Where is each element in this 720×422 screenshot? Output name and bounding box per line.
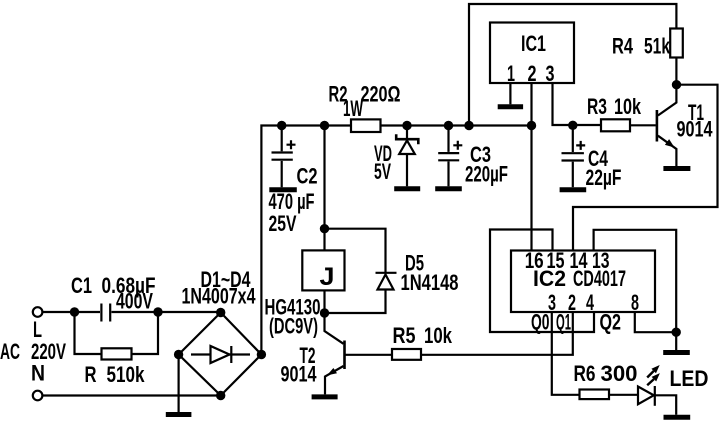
svg-text:N: N <box>31 361 45 386</box>
svg-text:9014: 9014 <box>281 362 318 387</box>
wire IC2 pin8 <box>635 312 676 332</box>
diode D5 loop <box>325 229 397 313</box>
node relay branch junction <box>320 121 329 130</box>
svg-text:1W: 1W <box>343 96 363 121</box>
ground C4 <box>560 187 587 192</box>
svg-text:1N4007x4: 1N4007x4 <box>182 284 257 309</box>
svg-text:R3: R3 <box>587 94 607 119</box>
capacitor C3 <box>438 126 462 187</box>
ground T1 <box>663 166 690 171</box>
svg-text:10k: 10k <box>424 323 453 348</box>
IC1 box <box>490 23 574 84</box>
resistor R2 <box>351 119 381 132</box>
svg-text:5V: 5V <box>374 159 391 184</box>
wire relay branch <box>323 126 325 251</box>
wire top feed to R4 <box>469 4 676 126</box>
resistor R <box>102 348 132 359</box>
node C3 junction <box>444 121 453 130</box>
capacitor C4 <box>562 125 586 187</box>
svg-text:IC1: IC1 <box>521 31 546 56</box>
ground IC1 pin1 <box>498 104 523 109</box>
wire bridge left to ground <box>178 355 180 413</box>
node bridge bottom <box>216 391 225 400</box>
node L-R junction left <box>70 307 79 316</box>
svg-text:LED: LED <box>670 366 709 391</box>
wire IC2 pin15 reset loop <box>490 230 594 333</box>
wire R5 to IC2 pin2 <box>421 312 573 355</box>
svg-text:CD4017: CD4017 <box>573 266 626 291</box>
node bridge top <box>216 308 225 317</box>
ground VD <box>394 186 420 191</box>
node C4 junction <box>568 121 577 130</box>
node relay-D5 bottom junction <box>320 308 329 317</box>
svg-text:300: 300 <box>601 361 638 386</box>
ground LED <box>664 415 691 420</box>
svg-text:1: 1 <box>507 61 515 86</box>
wire R6 to LED <box>609 394 638 396</box>
node R4-T1 junction <box>672 80 681 89</box>
svg-text:51k: 51k <box>644 34 671 59</box>
capacitor C2 <box>272 126 296 188</box>
svg-text:(DC9V): (DC9V) <box>269 314 318 339</box>
svg-text:8: 8 <box>631 290 639 315</box>
svg-text:C2: C2 <box>297 164 318 189</box>
ground C2 <box>269 187 297 192</box>
svg-text:R5: R5 <box>393 323 416 348</box>
transistor T2 <box>325 313 345 394</box>
ground T2 <box>312 394 338 399</box>
node bridge left <box>174 350 183 359</box>
node VD junction <box>402 121 411 130</box>
wire IC2 pin3 Q0 to R6 <box>552 312 580 395</box>
svg-text:J: J <box>320 263 335 291</box>
wire IC1 pin1 <box>509 83 511 104</box>
node C2 junction <box>277 121 286 130</box>
wire IC1 pin2 to rail <box>530 83 532 126</box>
ground C3 <box>435 186 462 191</box>
IC2 box <box>511 251 655 313</box>
svg-text:9014: 9014 <box>677 117 714 142</box>
svg-text:C1: C1 <box>71 273 92 298</box>
node relay-D5 top junction <box>320 224 329 233</box>
capacitor C1 <box>101 304 110 322</box>
wire IC1 pin2 down to IC2 pin16 <box>530 126 532 251</box>
terminal L <box>33 307 43 317</box>
node IC1 pin2 junction <box>527 121 536 130</box>
wire R3 to T1 base <box>630 124 656 126</box>
svg-text:R: R <box>85 362 97 387</box>
wire N to bridge <box>43 394 221 396</box>
svg-text:R4: R4 <box>612 34 634 59</box>
bridge rectifier D1~D4 <box>179 313 262 396</box>
svg-text:IC2: IC2 <box>533 266 566 291</box>
terminal N <box>33 391 43 401</box>
node top riser junction <box>464 121 473 130</box>
zener diode VD <box>396 126 418 187</box>
svg-text:220Ω: 220Ω <box>361 81 401 106</box>
svg-text:2: 2 <box>528 61 537 86</box>
svg-text:400V: 400V <box>116 289 153 314</box>
LED <box>638 365 676 415</box>
wire junction to ground <box>675 332 677 350</box>
svg-text:R6: R6 <box>574 361 596 386</box>
resistor R6 <box>580 390 610 400</box>
node pin8-pin13 junction <box>672 328 681 337</box>
transistor T1 <box>657 85 677 166</box>
resistor R5 <box>392 349 421 360</box>
wire R loop <box>75 312 102 354</box>
wire T2 base to R5 <box>346 354 393 356</box>
relay J box <box>302 250 344 290</box>
wire L to C1 <box>43 311 100 313</box>
resistor R4 <box>670 29 683 58</box>
svg-text:Q2: Q2 <box>600 310 622 335</box>
svg-text:220µF: 220µF <box>465 162 508 187</box>
svg-text:10k: 10k <box>614 94 642 119</box>
ground IC2 pin8 <box>663 350 690 355</box>
svg-text:1N4148: 1N4148 <box>401 270 459 295</box>
wire DC+ riser <box>261 126 531 355</box>
svg-text:Q0: Q0 <box>531 310 550 335</box>
svg-text:510k: 510k <box>107 362 146 387</box>
svg-text:AC: AC <box>0 339 20 364</box>
wire C1 to bridge <box>112 311 221 313</box>
wire clock feed to IC2 pin14 <box>573 85 718 251</box>
wire IC1 pin3 <box>553 83 602 125</box>
wire R4 to node <box>675 58 677 85</box>
svg-text:3: 3 <box>546 61 555 86</box>
resistor R3 <box>601 119 630 131</box>
svg-text:25V: 25V <box>269 211 297 236</box>
wire IC2 pin13 enable loop <box>594 230 677 332</box>
wire relay to T2 <box>323 290 325 313</box>
svg-text:22µF: 22µF <box>586 165 622 190</box>
svg-text:Q1: Q1 <box>556 310 571 335</box>
svg-text:4: 4 <box>586 290 594 315</box>
ground bridge <box>166 412 192 417</box>
node C1-R junction right <box>153 307 162 316</box>
node bridge right <box>257 350 266 359</box>
wire R loop right <box>132 312 159 354</box>
